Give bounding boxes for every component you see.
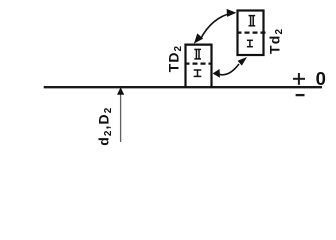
arrowhead lower-right xyxy=(238,57,247,66)
node minus terminal xyxy=(296,94,305,96)
dashed separator in Td2 xyxy=(237,31,266,33)
wire curved swap arrow lower xyxy=(219,64,239,75)
dashed separator in TD2 xyxy=(185,62,213,64)
node plus terminal xyxy=(293,73,305,85)
wire curved swap arrow upper xyxy=(201,13,232,39)
winding I symbol in TD2 xyxy=(194,70,202,76)
arrowhead upper-left xyxy=(194,33,203,43)
winding II symbol in Td2 xyxy=(249,16,256,26)
box TD2 outline xyxy=(186,45,212,88)
arrowhead up into bus xyxy=(117,87,124,95)
winding I symbol in Td2 xyxy=(247,40,253,46)
svg-text:0: 0 xyxy=(316,68,326,89)
label TD2 xyxy=(165,45,184,72)
wire main horizontal bus xyxy=(44,86,322,88)
label Td2 xyxy=(267,28,286,54)
winding II symbol in TD2 xyxy=(194,49,201,59)
box Td2 outline xyxy=(238,11,264,56)
wire vertical lead d2D2 xyxy=(120,94,122,142)
arrowhead upper-right xyxy=(227,9,237,17)
label d2,D2 xyxy=(96,107,115,146)
arrowhead lower-left xyxy=(213,69,220,78)
